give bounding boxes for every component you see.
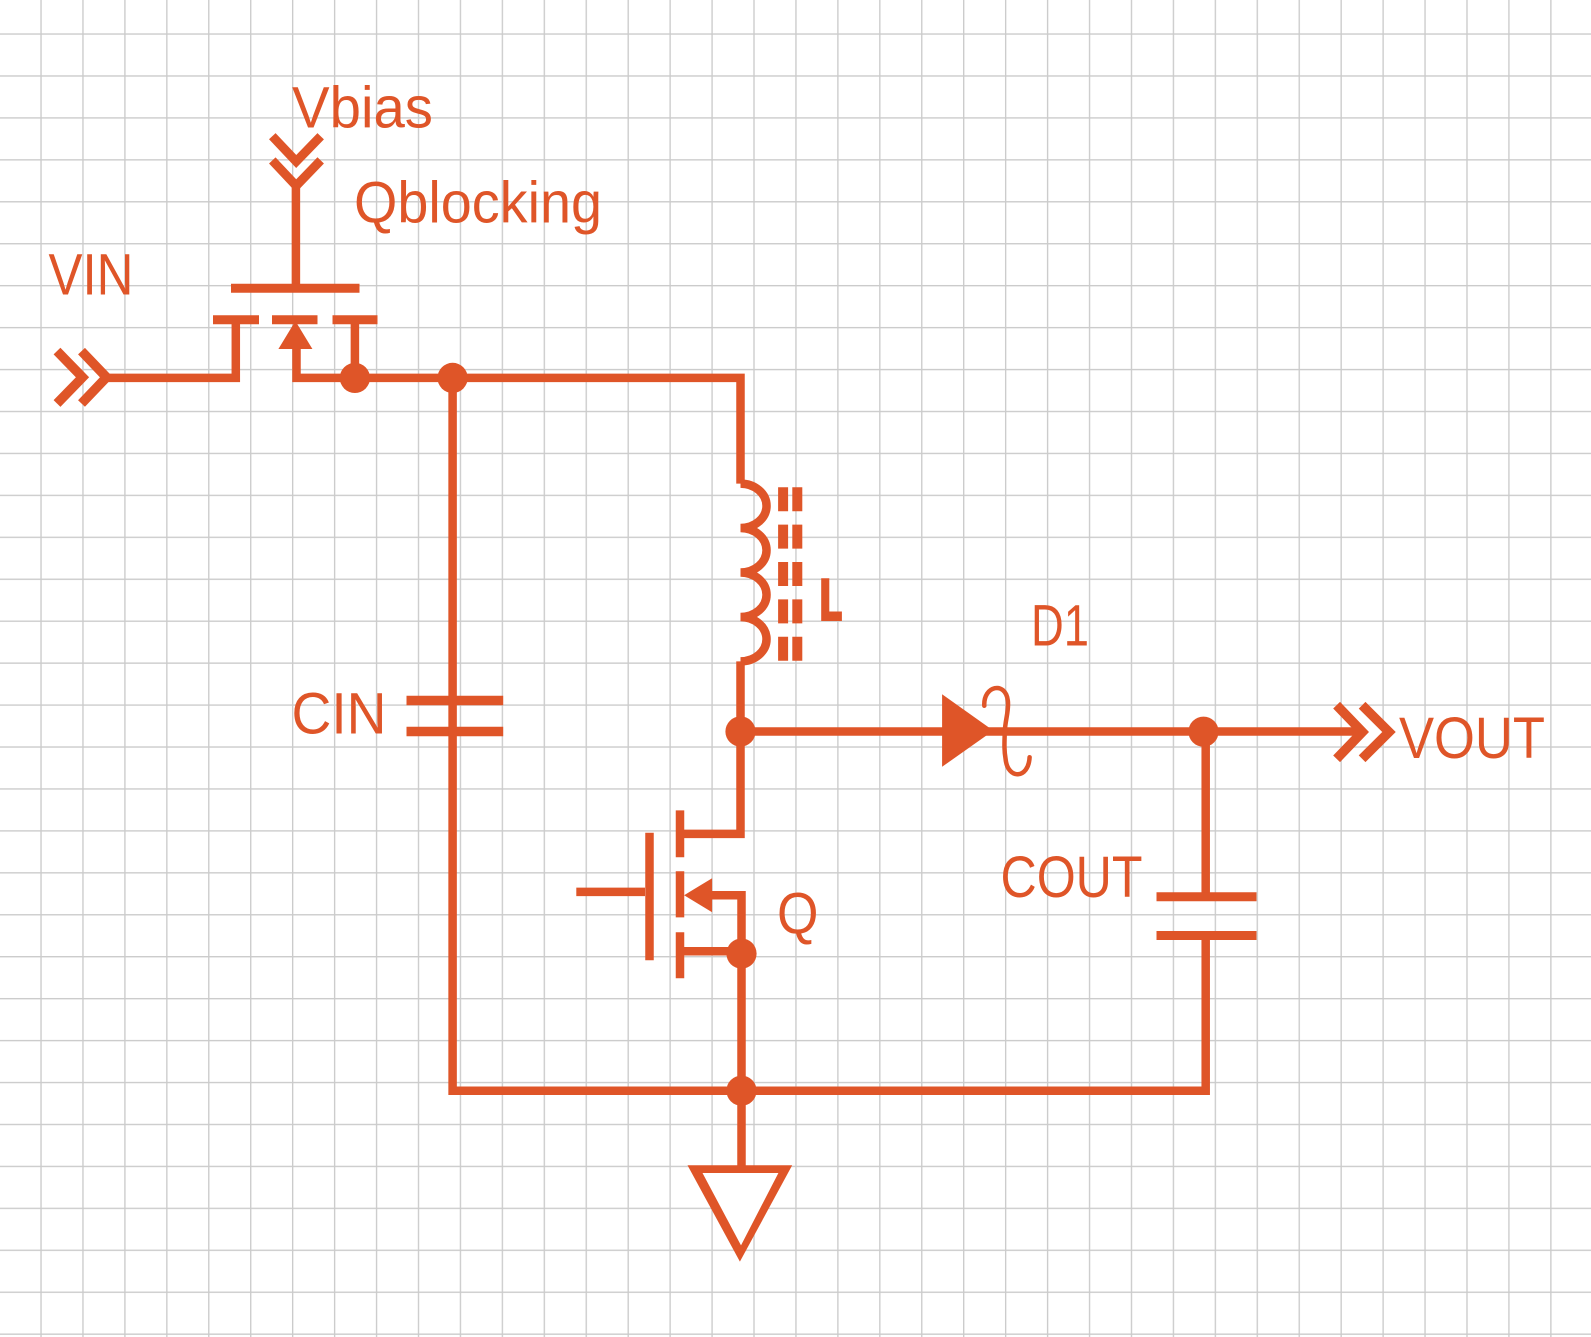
diode D1 cathode curl [984,688,1029,774]
wire VOUT node to COUT [1201,732,1210,898]
wire Vbias stem [292,184,301,284]
wire ground stub [737,1091,746,1168]
wire Q source lead [684,947,742,956]
svg-text:D1: D1 [1031,594,1089,659]
diode D1 [942,694,993,767]
svg-text:VOUT: VOUT [1399,706,1545,771]
wire Q source to ground rail [737,954,746,1091]
svg-text:VIN: VIN [49,243,134,308]
ground [688,1165,793,1261]
wire SW node to VOUT [741,727,1359,736]
svg-text:Vbias: Vbias [292,76,433,141]
wire inductor to node SW2 [736,661,745,731]
wire Qblocking bulk to node SW1 [297,347,355,378]
node Vbias [272,136,320,186]
label L [821,578,842,621]
capacitor COUT [1157,897,1257,936]
capacitor CIN [407,701,504,732]
transistor Qblocking [213,288,378,349]
transistor Q [576,810,712,978]
inductor core dashes [783,487,797,661]
node CIN junction [438,363,468,393]
wire CIN branch and ground rail [453,378,1206,1091]
svg-text:COUT: COUT [1001,845,1143,910]
svg-text:CIN: CIN [292,682,387,747]
svg-text:Qblocking: Qblocking [354,171,602,236]
node SW1 junction [340,363,370,393]
node Q source junction [726,939,756,969]
inductor L [741,484,767,662]
node SW junction [725,716,755,746]
svg-text:Q: Q [777,882,819,947]
wire top rail to inductor [355,378,741,484]
wire Q drain to SW node [684,732,741,834]
wire VIN to Qblocking source [104,322,236,378]
node ground junction [726,1076,756,1106]
node VIN [57,351,107,403]
wire Qblocking drain [351,322,360,378]
node VOUT chevrons [1337,705,1389,759]
node VOUT junction [1188,717,1218,747]
wire Q bulk to source [712,895,742,953]
